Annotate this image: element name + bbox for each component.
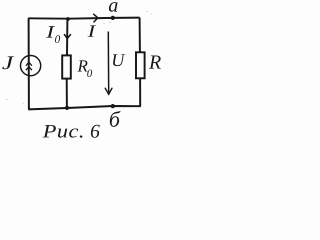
node b junction dot bbox=[111, 104, 115, 108]
current arrow I0 head bbox=[64, 35, 70, 39]
caption Рис. 6 bbox=[43, 125, 83, 138]
voltage arrow U shaft bbox=[107, 32, 109, 95]
resistor R0 bbox=[62, 55, 71, 78]
junction R0 top bbox=[66, 17, 70, 21]
caption figure number 6 bbox=[91, 125, 100, 138]
node a junction dot bbox=[111, 16, 115, 20]
wire R0 branch upper bbox=[66, 19, 68, 56]
wire R0 branch lower bbox=[66, 79, 68, 108]
current source double arrow bbox=[26, 62, 31, 70]
junction R0 bottom bbox=[65, 106, 69, 110]
label a bbox=[109, 2, 118, 12]
label J bbox=[2, 56, 14, 69]
current arrow I head bbox=[94, 14, 98, 22]
label I bbox=[88, 25, 97, 36]
resistor R bbox=[136, 52, 145, 78]
label b bbox=[110, 111, 121, 127]
label R bbox=[149, 56, 161, 69]
wire right upper bbox=[139, 18, 141, 53]
current source J circle bbox=[21, 56, 41, 76]
wire right lower bbox=[139, 79, 141, 107]
wire left bbox=[28, 18, 30, 109]
voltage arrow U head bbox=[105, 88, 112, 94]
label U bbox=[113, 54, 125, 66]
label I0 bbox=[46, 26, 55, 37]
wire top bbox=[28, 18, 139, 19]
label R0 bbox=[77, 60, 87, 71]
wire bottom bbox=[28, 106, 141, 109]
